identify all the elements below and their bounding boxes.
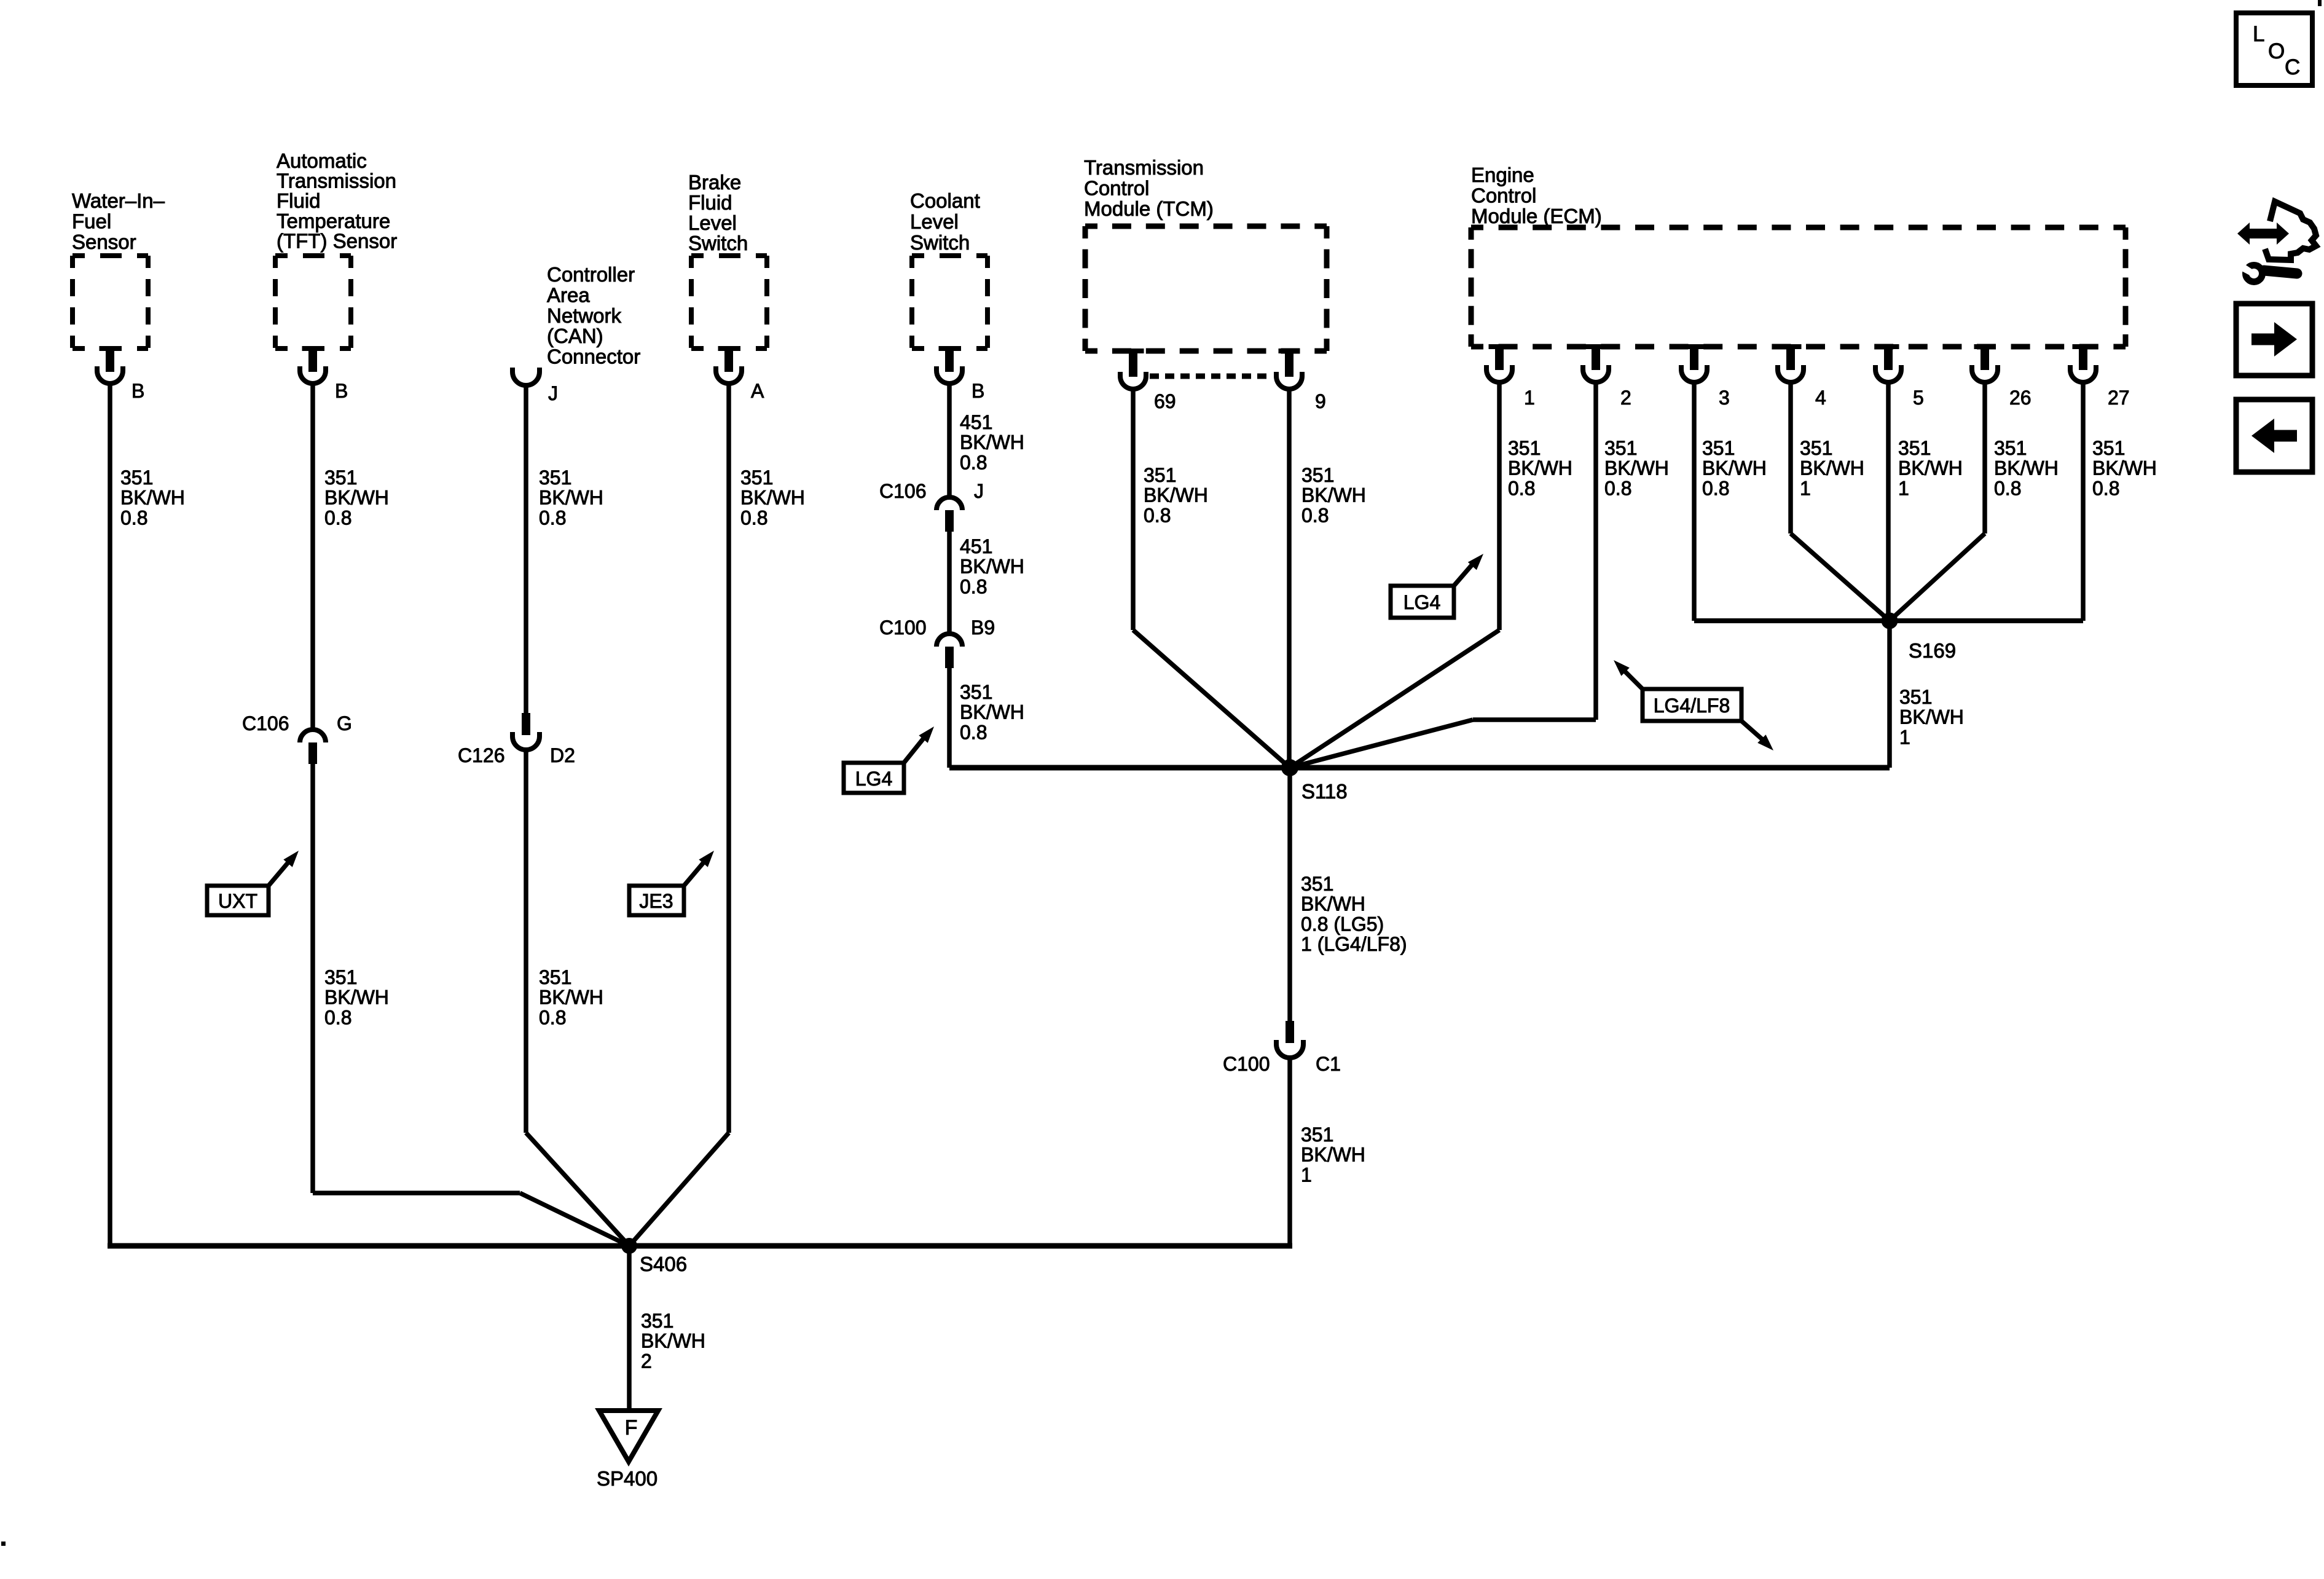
svg-text:0.8: 0.8 [1508, 477, 1535, 499]
ECM pin 5 cup [1875, 365, 1901, 382]
svg-text:0.8: 0.8 [120, 506, 147, 529]
Coolant Level Switch dashed box top edge [912, 253, 987, 258]
svg-text:1: 1 [1524, 387, 1535, 409]
svg-text:351: 351 [120, 467, 153, 489]
svg-text:0.8: 0.8 [539, 506, 566, 529]
svg-text:1: 1 [1898, 477, 1909, 499]
wire: S406 down to ground [627, 1246, 632, 1412]
svg-text:351: 351 [641, 1310, 673, 1332]
diagnostic icon double arrow left head [2237, 222, 2250, 245]
svg-text:Fuel: Fuel [72, 210, 111, 232]
wire: TFT sensor pin B down to C106 [310, 384, 315, 729]
TFT Sensor dashed box top edge [275, 253, 351, 258]
svg-text:BK/WH: BK/WH [740, 487, 805, 509]
ECM pin 2 cup [1583, 365, 1609, 382]
svg-text:351: 351 [740, 467, 773, 489]
ECM pin 2 pad [1585, 344, 1607, 349]
ECM pin 1 stub [1495, 347, 1504, 370]
svg-text:BK/WH: BK/WH [1301, 484, 1366, 506]
svg-text:S118: S118 [1301, 780, 1348, 803]
svg-text:9: 9 [1315, 390, 1326, 412]
TCM dashed box right edge [1324, 226, 1330, 351]
wire: Coolant below C100 down to LG4 bus [947, 668, 952, 768]
svg-text:C106: C106 [879, 480, 927, 502]
ECM dashed box top edge [1471, 225, 2126, 230]
svg-text:B: B [972, 380, 984, 402]
TFT Sensor pin cup [300, 366, 326, 384]
svg-text:Switch: Switch [688, 232, 748, 254]
svg-text:0.8: 0.8 [1994, 477, 2021, 499]
svg-text:L: L [2253, 22, 2264, 46]
ECM pin 1 pad [1489, 344, 1510, 349]
svg-text:351: 351 [539, 966, 571, 988]
svg-text:S169: S169 [1909, 639, 1956, 662]
diagnostic icon double arrow shaft [2247, 229, 2280, 238]
wire: TCM pin 69 down [1131, 390, 1136, 630]
wire: CAN below C126 down [524, 750, 528, 1133]
svg-text:BK/WH: BK/WH [2092, 457, 2157, 479]
ECM pin 5 stub [1884, 347, 1893, 370]
wire: TCM pin 9 down into S118 [1287, 390, 1292, 768]
svg-text:351: 351 [2092, 437, 2125, 459]
svg-text:BK/WH: BK/WH [641, 1330, 705, 1352]
svg-text:4: 4 [1815, 387, 1826, 409]
inline connector C106 terminal arc (Coolant wire) [936, 497, 962, 510]
TFT Sensor pin pad [302, 346, 324, 351]
svg-text:C: C [2285, 55, 2300, 79]
svg-text:LG4/LF8: LG4/LF8 [1654, 695, 1730, 717]
svg-text:A: A [751, 380, 764, 402]
svg-text:Area: Area [547, 283, 590, 306]
junction S406 dot [621, 1238, 637, 1254]
TCM pin 69 cup [1120, 372, 1146, 389]
svg-text:BK/WH: BK/WH [1508, 457, 1572, 479]
svg-text:Transmission: Transmission [277, 170, 396, 192]
svg-text:27: 27 [2108, 387, 2130, 409]
svg-text:Module (TCM): Module (TCM) [1084, 197, 1214, 220]
svg-text:Level: Level [910, 210, 959, 233]
svg-text:451: 451 [960, 535, 992, 557]
wire: C100 C1 down to bottom corner [1287, 1058, 1292, 1246]
wire: CAN connector J down to C126 [524, 385, 528, 714]
svg-text:O: O [2268, 39, 2285, 63]
Water-In-Fuel Sensor dashed box bottom edge [73, 346, 148, 351]
tag arrow LG4 (ECM) head [1468, 554, 1483, 570]
svg-text:BK/WH: BK/WH [1899, 706, 1964, 728]
svg-text:0.8: 0.8 [960, 721, 987, 743]
svg-text:0.8: 0.8 [960, 575, 987, 597]
svg-text:Controller: Controller [547, 263, 635, 286]
tag box UXT [207, 886, 269, 915]
svg-text:B9: B9 [971, 616, 995, 639]
svg-text:Engine: Engine [1471, 163, 1534, 186]
svg-text:BK/WH: BK/WH [1702, 457, 1767, 479]
wire: CAN diagonal into S406 [526, 1133, 629, 1246]
svg-text:0.8: 0.8 [324, 506, 351, 529]
ECM pin 4 stub [1786, 347, 1795, 370]
svg-text:F: F [625, 1416, 638, 1439]
Coolant Level Switch pin cup [936, 366, 962, 384]
tag arrow JE3 head [699, 851, 714, 867]
svg-text:351: 351 [1604, 437, 1637, 459]
wire: ECM pin 3 horizontal into S169 [1694, 618, 1890, 623]
TCM connector face dashed line [1150, 374, 1273, 379]
tag arrow LG4 (ECM) line [1454, 563, 1474, 586]
svg-text:351: 351 [1508, 437, 1541, 459]
svg-text:B: B [132, 380, 144, 402]
tag box JE3 [629, 886, 684, 915]
svg-text:Water–In–: Water–In– [72, 189, 165, 212]
wire: ECM pin 27 down [2081, 382, 2086, 621]
svg-text:C1: C1 [1316, 1053, 1341, 1075]
inline connector C100 pin bar (S118 drop wire) [1286, 1021, 1294, 1043]
svg-text:BK/WH: BK/WH [960, 556, 1024, 578]
svg-text:Fluid: Fluid [277, 189, 321, 212]
wire: ECM pin 2 diagonal into S118 [1290, 720, 1473, 768]
Coolant Level Switch dashed box left edge [909, 256, 914, 348]
wire: ECM pin 4 diagonal into S169 [1791, 534, 1890, 621]
svg-text:1: 1 [1800, 477, 1811, 499]
TFT Sensor pin stub [308, 348, 317, 372]
svg-text:(CAN): (CAN) [547, 325, 603, 347]
wire: ECM pin 3 down [1692, 382, 1697, 621]
svg-text:Switch: Switch [910, 231, 970, 254]
svg-text:351: 351 [539, 467, 571, 489]
svg-text:J: J [548, 382, 558, 404]
svg-text:351: 351 [1144, 464, 1176, 486]
svg-text:351: 351 [1898, 437, 1931, 459]
ECM pin 26 pad [1974, 344, 1996, 349]
Brake Fluid Level Switch pin cup [716, 366, 742, 384]
TFT Sensor dashed box left edge [273, 256, 278, 348]
svg-text:1 (LG4/LF8): 1 (LG4/LF8) [1301, 933, 1407, 955]
ECM pin 3 pad [1684, 344, 1705, 349]
TFT Sensor dashed box right edge [348, 256, 353, 348]
svg-text:BK/WH: BK/WH [1994, 457, 2059, 479]
svg-text:B: B [335, 380, 348, 402]
svg-text:351: 351 [1702, 437, 1735, 459]
svg-text:5: 5 [1913, 387, 1924, 409]
svg-text:LG4: LG4 [1403, 591, 1440, 613]
Brake Fluid Level Switch pin stub [724, 348, 733, 372]
Brake Fluid Level Switch dashed box bottom edge [691, 346, 767, 351]
svg-text:1: 1 [1301, 1164, 1312, 1186]
back arrow shaft [2272, 430, 2297, 442]
svg-text:351: 351 [1994, 437, 2027, 459]
wire: S169 down [1887, 621, 1892, 768]
svg-text:Network: Network [547, 304, 622, 327]
wire: ECM pin 4 down [1788, 382, 1793, 534]
inline connector C126 pin bar (CAN wire) [522, 713, 530, 735]
inline connector C100 terminal cup (S118 drop wire) [1276, 1040, 1303, 1058]
ECM pin 3 cup [1681, 365, 1707, 382]
inline connector C106 terminal arc (TFT wire) [300, 730, 326, 742]
svg-text:0.8: 0.8 [1604, 477, 1631, 499]
ECM pin 26 stub [1981, 347, 1989, 370]
svg-text:351: 351 [1301, 1124, 1333, 1146]
ECM dashed box bottom edge [1471, 344, 2126, 350]
CAN Connector pin cup [512, 368, 540, 385]
svg-text:1: 1 [1899, 726, 1910, 748]
svg-text:UXT: UXT [218, 890, 257, 912]
svg-text:0.8: 0.8 [324, 1006, 351, 1028]
wire: S118 down to C100 [1287, 768, 1292, 1021]
svg-text:Temperature: Temperature [277, 210, 390, 232]
svg-text:BK/WH: BK/WH [960, 431, 1024, 454]
svg-text:BK/WH: BK/WH [1301, 893, 1365, 915]
wire: ECM pin 5 down into S169 [1886, 382, 1891, 621]
TCM dashed box left edge [1083, 226, 1088, 351]
wire: ECM pin 2 down [1593, 382, 1598, 720]
svg-text:BK/WH: BK/WH [960, 701, 1024, 723]
svg-text:BK/WH: BK/WH [120, 487, 185, 509]
tag arrow UXT line [269, 862, 289, 886]
diagnostic icon outline [2265, 202, 2316, 260]
scan artifact top-right tick [2318, 0, 2322, 6]
svg-text:BK/WH: BK/WH [1301, 1144, 1365, 1166]
LOC legend box [2236, 13, 2312, 85]
ECM pin 3 stub [1690, 347, 1698, 370]
svg-text:BK/WH: BK/WH [324, 986, 389, 1009]
wire: TFT diagonal into S406 [520, 1193, 629, 1246]
svg-text:26: 26 [2009, 387, 2032, 409]
back arrow head [2251, 419, 2274, 453]
ECM dashed box left edge [1469, 227, 1474, 347]
scan artifact bottom-left dot [1, 1542, 6, 1546]
junction S169 dot [1882, 613, 1898, 629]
svg-text:J: J [974, 480, 984, 502]
svg-text:Connector: Connector [547, 345, 640, 368]
svg-text:3: 3 [1719, 387, 1730, 409]
Coolant Level Switch dashed box right edge [985, 256, 990, 348]
svg-text:351: 351 [960, 681, 992, 703]
forward arrow legend box [2236, 304, 2312, 376]
svg-text:SP400: SP400 [597, 1467, 658, 1490]
svg-text:Control: Control [1471, 184, 1536, 207]
svg-text:Transmission: Transmission [1084, 156, 1204, 179]
wire: bottom bus horizontal into S406 [108, 1243, 629, 1249]
TCM pin 9 pad [1279, 348, 1300, 353]
svg-text:S406: S406 [640, 1253, 687, 1275]
TCM dashed box bottom edge [1085, 348, 1327, 354]
tag arrow UXT head [283, 851, 299, 867]
tag arrow LG4 (coolant) line [904, 738, 924, 763]
inline connector C106 pin bar (TFT wire) [308, 742, 317, 764]
wire: bottom bus from corner into S406 [629, 1243, 1292, 1249]
svg-text:BK/WH: BK/WH [1898, 457, 1963, 479]
diagnostic icon wrench jaw notch [2242, 264, 2256, 277]
svg-text:351: 351 [1301, 464, 1334, 486]
svg-text:BK/WH: BK/WH [324, 487, 389, 509]
svg-text:BK/WH: BK/WH [1604, 457, 1669, 479]
Coolant Level Switch pin stub [945, 348, 954, 372]
svg-text:Fluid: Fluid [688, 191, 732, 214]
svg-text:(TFT) Sensor: (TFT) Sensor [277, 229, 397, 252]
wire: ECM pin 26 diagonal into S169 [1890, 534, 1985, 621]
svg-text:451: 451 [960, 411, 992, 433]
svg-text:351: 351 [324, 467, 357, 489]
svg-text:D2: D2 [550, 744, 575, 766]
Water-In-Fuel Sensor dashed box left edge [70, 256, 75, 348]
ECM pin 4 cup [1778, 365, 1804, 382]
svg-text:G: G [337, 712, 352, 734]
ground symbol triangle F [599, 1411, 658, 1462]
ECM pin 27 pad [2073, 344, 2094, 349]
ECM pin 5 pad [1878, 344, 1899, 349]
ECM pin 1 cup [1486, 365, 1512, 382]
inline connector C100 terminal arc (Coolant wire) [936, 634, 962, 647]
wire: Coolant Level Switch pin B down to C106 [947, 384, 952, 497]
wire: ECM pin 1 down [1497, 382, 1502, 630]
svg-text:2: 2 [1620, 387, 1631, 409]
TCM pin 69 pad [1123, 348, 1144, 353]
forward arrow head [2274, 322, 2297, 356]
Water-In-Fuel Sensor dashed box right edge [146, 256, 151, 348]
svg-text:Sensor: Sensor [72, 230, 136, 253]
svg-text:Control: Control [1084, 177, 1149, 200]
Brake Fluid Level Switch dashed box right edge [764, 256, 769, 348]
junction S118 dot [1281, 759, 1298, 776]
ECM pin 2 stub [1592, 347, 1600, 370]
tag arrow JE3 line [684, 862, 704, 886]
svg-text:C126: C126 [458, 744, 505, 766]
svg-text:C100: C100 [1223, 1053, 1270, 1075]
Coolant Level Switch pin pad [939, 346, 960, 351]
svg-text:69: 69 [1154, 390, 1176, 412]
svg-text:0.8: 0.8 [539, 1006, 566, 1028]
ECM pin 27 cup [2070, 365, 2096, 382]
wire: LG4 horizontal bus from Coolant into S118 [949, 765, 1290, 771]
forward arrow shaft [2251, 334, 2276, 345]
back arrow legend box [2236, 400, 2312, 472]
tag arrow LG4/LF8 lower-right line [1741, 721, 1762, 739]
svg-text:LG4: LG4 [855, 768, 892, 790]
diagnostic icon wrench handle [2264, 270, 2297, 274]
svg-text:351: 351 [1301, 873, 1333, 895]
Coolant Level Switch dashed box bottom edge [912, 346, 987, 351]
tag box LG4 (ECM) [1391, 586, 1454, 618]
svg-text:BK/WH: BK/WH [539, 986, 603, 1009]
tag box LG4/LF8 [1643, 689, 1741, 721]
Water-In-Fuel Sensor pin stub [106, 348, 114, 372]
wire: Coolant between C106 and C100 [947, 532, 952, 634]
svg-text:JE3: JE3 [639, 890, 673, 912]
ECM pin 27 stub [2079, 347, 2087, 370]
tag box LG4 (coolant) [844, 763, 904, 793]
Water-In-Fuel Sensor pin cup [97, 366, 123, 384]
svg-text:Coolant: Coolant [910, 189, 980, 212]
inline connector C126 terminal cup (CAN wire) [512, 732, 540, 750]
svg-text:C106: C106 [242, 712, 289, 734]
wire: Brake Fluid Level Switch pin A down [726, 384, 731, 1133]
svg-text:0.8 (LG5): 0.8 (LG5) [1301, 913, 1384, 935]
tag arrow LG4/LF8 lower-right head [1757, 734, 1773, 750]
svg-text:0.8: 0.8 [2092, 477, 2119, 499]
wire: ECM pin 27 horizontal into S169 [1890, 618, 2083, 623]
svg-text:BK/WH: BK/WH [1800, 457, 1864, 479]
wire: Brake diagonal into S406 [629, 1133, 729, 1246]
inline connector C100 pin bar (Coolant wire) [945, 647, 954, 668]
svg-text:BK/WH: BK/WH [1144, 484, 1208, 506]
svg-text:351: 351 [1800, 437, 1832, 459]
ECM dashed box right edge [2123, 227, 2129, 347]
svg-text:C100: C100 [879, 616, 927, 639]
wire: S169 horizontal into S118 [1290, 765, 1890, 771]
svg-text:0.8: 0.8 [1301, 504, 1329, 526]
svg-text:0.8: 0.8 [1702, 477, 1729, 499]
tag arrow LG4 (coolant) head [919, 726, 934, 743]
TCM pin 69 stub [1129, 351, 1137, 377]
svg-text:Module (ECM): Module (ECM) [1471, 205, 1602, 227]
wire: ECM pin 1 diagonal into S118 [1290, 630, 1499, 768]
Water-In-Fuel Sensor dashed box top edge [73, 253, 148, 258]
svg-text:0.8: 0.8 [960, 451, 987, 473]
Brake Fluid Level Switch dashed box left edge [689, 256, 694, 348]
Brake Fluid Level Switch dashed box top edge [691, 253, 767, 258]
svg-text:0.8: 0.8 [740, 506, 767, 529]
Brake Fluid Level Switch pin pad [718, 346, 740, 351]
tag arrow LG4/LF8 upper-left line [1625, 671, 1643, 689]
wire: Water-In-Fuel Sensor pin B to bottom bus [108, 384, 112, 1246]
svg-text:Brake: Brake [688, 171, 741, 194]
svg-text:Level: Level [688, 211, 737, 234]
svg-text:351: 351 [324, 966, 357, 988]
TCM pin 9 stub [1285, 351, 1294, 377]
svg-text:0.8: 0.8 [1144, 504, 1171, 526]
TCM pin 9 cup [1276, 372, 1302, 389]
svg-text:Automatic: Automatic [277, 149, 367, 172]
diagnostic icon wrench head [2246, 266, 2263, 282]
Water-In-Fuel Sensor pin pad [100, 346, 121, 351]
svg-text:BK/WH: BK/WH [539, 487, 603, 509]
inline connector C106 pin bar (Coolant wire) [945, 510, 954, 532]
wire: TFT below C106 down [310, 764, 315, 1193]
TCM dashed box top edge [1085, 224, 1327, 229]
ECM pin 26 cup [1972, 365, 1998, 382]
svg-text:351: 351 [1899, 686, 1932, 708]
wire: TCM pin 69 diagonal into S118 [1133, 630, 1290, 768]
diagnostic icon double arrow right head [2277, 222, 2289, 245]
wire: ECM pin 2 horizontal jog [1473, 717, 1596, 722]
wire: ECM pin 26 down [1982, 382, 1987, 534]
ECM pin 4 pad [1780, 344, 1802, 349]
wire: TFT horizontal jog [313, 1191, 520, 1195]
svg-text:2: 2 [641, 1350, 652, 1372]
TFT Sensor dashed box bottom edge [275, 346, 351, 351]
tag arrow LG4/LF8 upper-left head [1614, 660, 1630, 676]
